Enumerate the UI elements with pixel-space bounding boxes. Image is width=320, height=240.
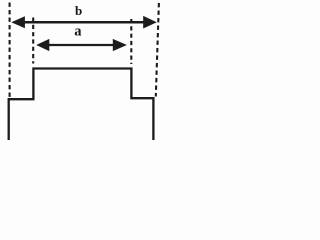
svg-text:b: b <box>75 3 82 18</box>
svg-text:a: a <box>74 24 82 40</box>
